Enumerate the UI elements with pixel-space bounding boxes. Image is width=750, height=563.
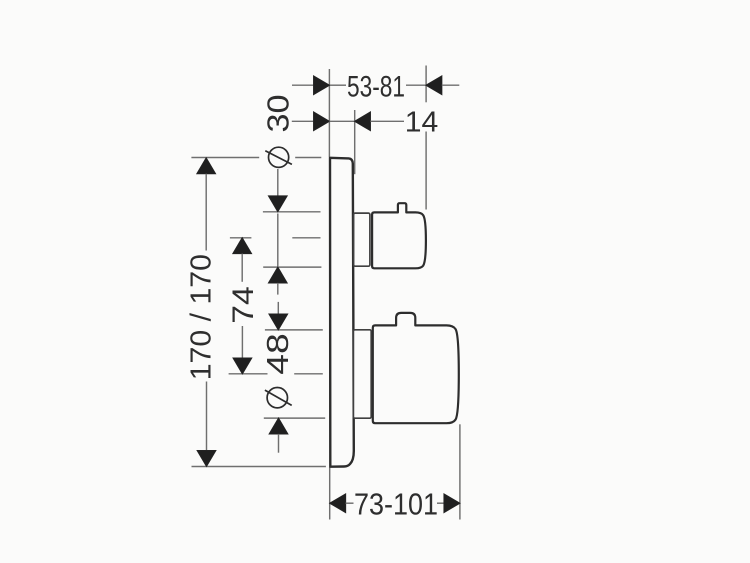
dimension 74 (rotated) [227,238,260,374]
dimension 53-81 (top) [292,71,459,104]
reference line lower handle axis (y=373.8) [229,373,323,375]
wall plate (escutcheon, side view) [330,158,354,467]
svg-text:14: 14 [405,106,439,138]
svg-text:74: 74 [227,286,260,324]
svg-text:53-81: 53-81 [347,71,405,104]
reference line upper handle bottom (y=267.1) [263,266,321,268]
svg-text:170 / 170: 170 / 170 [185,254,217,380]
dimension label ø 30 (rotated) [262,94,296,132]
lower handle knob [373,313,459,423]
dimension 14 [292,106,439,138]
dimension chain ø48 arrows [269,302,288,453]
lower handle sleeve [353,330,371,418]
dimension 73-101 (bottom) [330,487,460,522]
extension line below lower knob front (x=459.9) [459,424,461,519]
reference line plate top / 170 top (y=157.5) [191,157,321,159]
diameter symbol lower [265,388,292,408]
reference line plate bottom / 170 bottom (y=466.5) [192,466,326,468]
reference line upper handle top (y=211.8) [263,211,321,213]
reference line lower handle top (y=329.9) [265,329,323,331]
dimension label 48 (rotated) [261,333,295,375]
svg-text:48: 48 [261,333,295,375]
dimension chain ø30 arrows [269,169,288,295]
extension line plate front (x=354.7) [354,110,356,174]
extension line upper knob front (x=426.1) [425,66,427,210]
svg-text:73-101: 73-101 [354,487,438,522]
upper handle sleeve [354,213,370,266]
svg-text:30: 30 [262,94,296,132]
extension line left of plate top (x=329.4) [328,69,330,157]
dimension 170 / 170 (rotated, far left) [185,158,217,466]
reference line lower handle bottom (y=418.1) [264,417,325,419]
diameter symbol upper [265,147,292,167]
reference line upper handle axis (y=237.8) [230,237,321,239]
extension line below plate bottom (x=329.7) [329,467,331,520]
upper handle knob [372,203,426,268]
